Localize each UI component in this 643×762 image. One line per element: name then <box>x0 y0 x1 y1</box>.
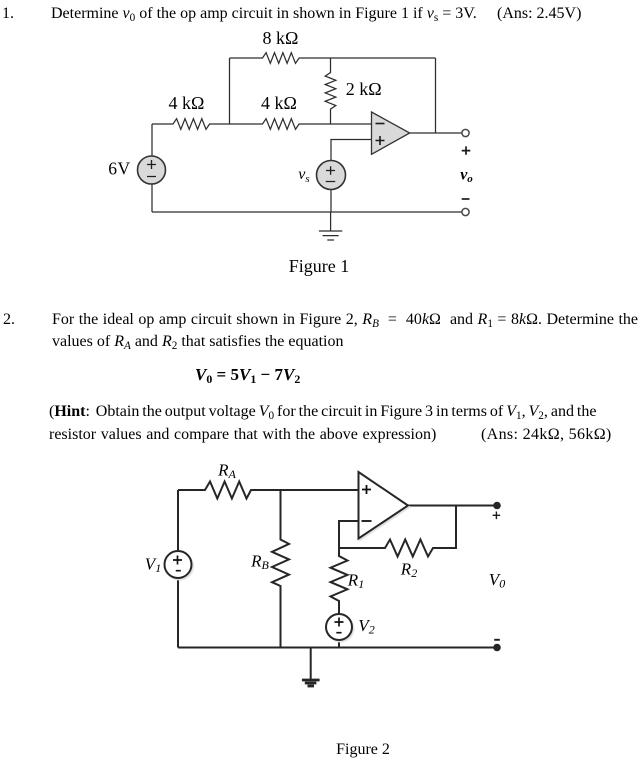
svg-text:Figure 2: Figure 2 <box>336 741 390 758</box>
svg-text:2 kΩ: 2 kΩ <box>346 79 382 99</box>
svg-text:R1: R1 <box>347 571 364 592</box>
svg-text:Figure 1: Figure 1 <box>289 256 350 276</box>
svg-text:RA: RA <box>217 461 236 482</box>
svg-text:V1: V1 <box>145 555 161 576</box>
svg-text:6V: 6V <box>108 159 130 179</box>
svg-text:R2: R2 <box>400 560 417 581</box>
svg-text:4 kΩ: 4 kΩ <box>169 93 205 113</box>
svg-text:4 kΩ: 4 kΩ <box>261 93 297 113</box>
svg-text:V2: V2 <box>358 616 374 637</box>
svg-text:vo: vo <box>460 167 473 186</box>
svg-text:RB: RB <box>250 552 269 573</box>
svg-text:V0: V0 <box>489 570 505 591</box>
svg-text:vs: vs <box>298 166 309 185</box>
svg-text:8 kΩ: 8 kΩ <box>263 28 299 48</box>
